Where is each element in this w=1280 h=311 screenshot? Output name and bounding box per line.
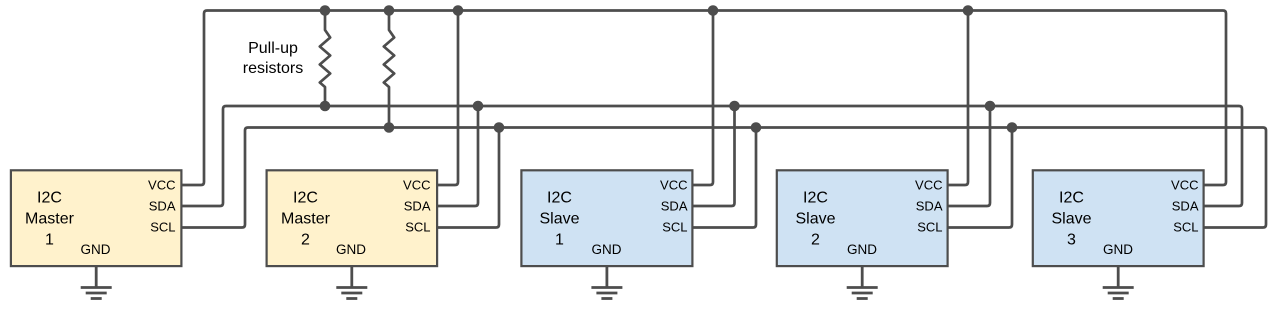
svg-text:SDA: SDA: [661, 199, 688, 214]
svg-text:SDA: SDA: [916, 199, 943, 214]
svg-text:VCC: VCC: [660, 178, 687, 193]
svg-text:SCL: SCL: [662, 220, 687, 235]
svg-text:VCC: VCC: [403, 178, 430, 193]
svg-text:SCL: SCL: [917, 220, 942, 235]
svg-text:VCC: VCC: [915, 178, 942, 193]
svg-text:GND: GND: [336, 242, 366, 257]
svg-text:GND: GND: [592, 242, 622, 257]
svg-text:GND: GND: [81, 242, 111, 257]
svg-text:VCC: VCC: [148, 178, 175, 193]
svg-text:GND: GND: [847, 242, 877, 257]
svg-text:SDA: SDA: [404, 199, 431, 214]
svg-text:SCL: SCL: [1173, 220, 1198, 235]
svg-text:SCL: SCL: [405, 220, 430, 235]
svg-text:GND: GND: [1103, 242, 1133, 257]
svg-text:SCL: SCL: [150, 220, 175, 235]
svg-text:SDA: SDA: [149, 199, 176, 214]
svg-text:VCC: VCC: [1171, 178, 1198, 193]
svg-text:SDA: SDA: [1172, 199, 1199, 214]
